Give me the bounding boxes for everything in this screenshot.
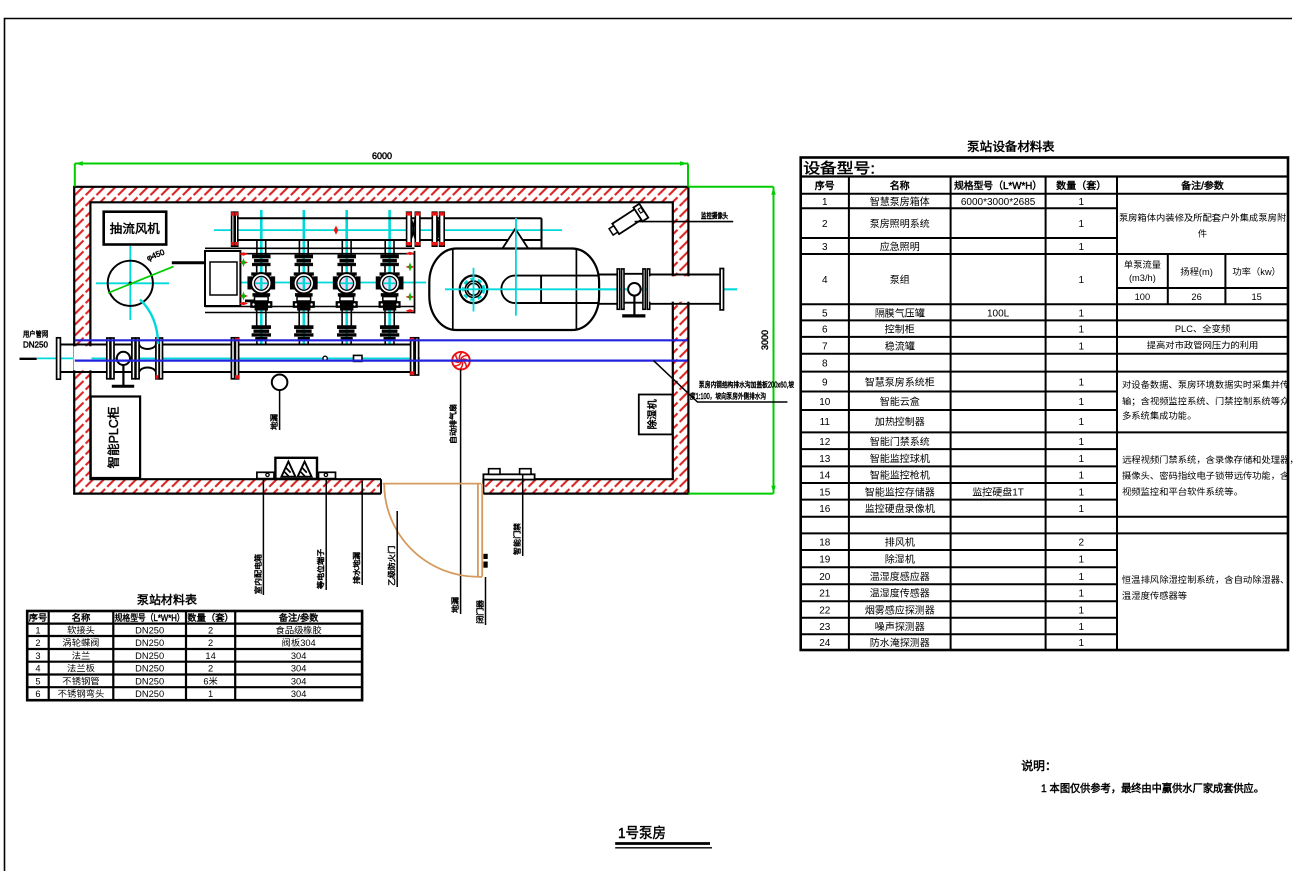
svg-text:名称: 名称 <box>72 613 91 623</box>
svg-text:5: 5 <box>35 676 40 686</box>
svg-text:6: 6 <box>35 689 40 699</box>
svg-text:19: 19 <box>819 555 831 566</box>
svg-text:监控硬盘录像机: 监控硬盘录像机 <box>865 503 935 515</box>
svg-text:1: 1 <box>1079 572 1085 583</box>
svg-text:智能监控球机: 智能监控球机 <box>870 453 930 465</box>
valve V1 stem <box>122 365 124 385</box>
tank centerline <box>445 288 737 290</box>
door lock <box>483 554 487 568</box>
svg-text:单泵流量: 单泵流量 <box>1124 259 1161 270</box>
discharge manifold pipe <box>238 218 542 248</box>
svg-text:备注/参数: 备注/参数 <box>279 613 319 623</box>
svg-text:智能门禁系统: 智能门禁系统 <box>870 436 931 448</box>
svg-text:16: 16 <box>819 504 831 515</box>
svg-text:9: 9 <box>822 378 828 389</box>
svg-text:2: 2 <box>35 638 40 648</box>
svg-text:1: 1 <box>1079 555 1085 566</box>
svg-text:2: 2 <box>1079 538 1085 549</box>
marker right red top <box>406 252 415 255</box>
svg-text:1: 1 <box>1079 471 1085 482</box>
svg-text:说明：: 说明： <box>1021 759 1057 773</box>
exhaust fan symbol <box>452 352 470 370</box>
svg-text:泵房箱体内装修及所配套户外集成泵房附: 泵房箱体内装修及所配套户外集成泵房附 <box>1119 212 1287 223</box>
svg-text:DN250: DN250 <box>135 664 164 674</box>
tank bearing inner circle <box>468 283 480 295</box>
skid header box <box>205 251 240 306</box>
fan duct leader green <box>108 266 174 293</box>
discharge left end flange a <box>231 212 234 246</box>
svg-text:泵站设备材料表: 泵站设备材料表 <box>967 139 1055 154</box>
svg-text:名称: 名称 <box>890 180 910 192</box>
door frame line <box>383 483 481 485</box>
tank inlet vertical overlay <box>515 218 517 316</box>
svg-text:监控摄像头: 监控摄像头 <box>701 212 728 221</box>
flange F5a <box>231 338 234 379</box>
svg-text:泵房照明系统: 泵房照明系统 <box>870 218 931 230</box>
svg-text:3: 3 <box>822 242 828 253</box>
room wall hatch right <box>673 202 689 479</box>
svg-text:13: 13 <box>819 454 831 465</box>
skid header inner panel <box>210 262 237 295</box>
dim tick top <box>688 186 773 188</box>
svg-text:稳流罐: 稳流罐 <box>885 340 915 352</box>
funnel to tank <box>502 229 528 249</box>
svg-text:序号: 序号 <box>29 612 48 623</box>
outlet end flange <box>720 269 723 310</box>
svg-text:10: 10 <box>819 397 831 408</box>
svg-text:2: 2 <box>822 219 828 230</box>
dim tick right <box>687 164 689 187</box>
svg-text:DN250: DN250 <box>135 625 164 635</box>
svg-text:1: 1 <box>1079 325 1085 336</box>
marker left red bottom <box>239 302 248 305</box>
svg-text:3000: 3000 <box>760 330 770 350</box>
tank inner capsule <box>501 276 599 303</box>
svg-text:24: 24 <box>819 638 831 649</box>
svg-text:22: 22 <box>819 605 831 616</box>
pump row centerline <box>207 282 426 284</box>
svg-text:DN250: DN250 <box>23 341 48 350</box>
svg-text:6000: 6000 <box>372 151 392 161</box>
svg-text:4: 4 <box>822 275 828 286</box>
svg-text:室内配电箱: 室内配电箱 <box>254 554 263 594</box>
svg-text:备注/参数: 备注/参数 <box>1181 180 1224 192</box>
outlet flange pair2 b <box>647 269 649 309</box>
svg-text:件: 件 <box>1198 228 1207 239</box>
skid header terminal <box>245 300 258 303</box>
discharge left end flange b <box>235 212 238 246</box>
callout 乙级防火门 <box>388 511 398 587</box>
svg-text:304: 304 <box>291 676 307 686</box>
dim tick left <box>74 164 76 187</box>
svg-text:1: 1 <box>1079 341 1085 352</box>
tank seam right <box>575 249 577 330</box>
tank centerline overlay <box>445 288 737 290</box>
exhaust fan blades <box>452 352 469 369</box>
dim tick bottom <box>688 493 773 495</box>
svg-text:智能监控存储器: 智能监控存储器 <box>865 486 936 498</box>
skid top rail <box>205 248 415 253</box>
flange F5b <box>235 338 239 379</box>
discharge flex2 flange a <box>432 212 437 246</box>
fan circle <box>108 261 153 306</box>
svg-text:地漏: 地漏 <box>270 414 279 430</box>
tank inlet centerline vertical <box>515 218 517 316</box>
door swing arc <box>384 484 478 577</box>
svg-text:提高对市政管网压力的利用: 提高对市政管网压力的利用 <box>1147 340 1259 351</box>
svg-text:规格型号（L*W*H）: 规格型号（L*W*H） <box>954 180 1042 192</box>
svg-text:6000*3000*2685: 6000*3000*2685 <box>961 197 1036 208</box>
material table grid <box>27 611 362 700</box>
skid right edge <box>414 251 416 314</box>
callout 智能门禁 <box>512 474 523 556</box>
gauge circle <box>272 375 288 391</box>
svg-text:1: 1 <box>1079 197 1085 208</box>
fan crosshair vertical <box>129 246 131 320</box>
tank bearing outer circle <box>460 276 488 304</box>
svg-text:智能监控枪机: 智能监控枪机 <box>870 470 930 482</box>
svg-text:温湿度传感器: 温湿度传感器 <box>870 588 931 600</box>
svg-text:温湿度感应器: 温湿度感应器 <box>870 571 931 583</box>
distribution box <box>275 458 317 479</box>
svg-text:1: 1 <box>1079 504 1085 515</box>
svg-text:2: 2 <box>208 625 213 635</box>
dim arrow left <box>75 161 83 165</box>
door leaf <box>478 484 482 577</box>
svg-text:不锈钢弯头: 不锈钢弯头 <box>58 688 105 699</box>
tank seam left <box>452 249 454 330</box>
pump unit 3 <box>333 241 360 345</box>
svg-text:1: 1 <box>1079 605 1085 616</box>
fan label box <box>104 212 167 245</box>
camera leader line <box>635 221 734 223</box>
warning triangle 1 <box>281 462 295 477</box>
equipment table remark cells <box>1117 212 1299 601</box>
tank bearing vertical overlay <box>473 268 475 312</box>
suction end flange <box>57 338 61 379</box>
svg-text:涡轮蝶阀: 涡轮蝶阀 <box>62 638 99 648</box>
svg-text:1: 1 <box>1079 417 1085 428</box>
svg-text:15: 15 <box>819 487 831 498</box>
fan hub dot <box>129 282 133 286</box>
svg-text:规格型号（L*W*H）: 规格型号（L*W*H） <box>115 613 185 623</box>
svg-text:对设备数据、泵房环境数据实时采集并传: 对设备数据、泵房环境数据实时采集并传 <box>1122 379 1289 390</box>
svg-text:乙级防火门: 乙级防火门 <box>388 546 397 586</box>
svg-text:1: 1 <box>1079 622 1085 633</box>
flexible joint suction <box>139 345 156 373</box>
door jamb right <box>482 479 484 493</box>
blue pipe upper <box>75 339 688 341</box>
svg-text:阀板304: 阀板304 <box>282 638 316 648</box>
svg-text:控制柜: 控制柜 <box>884 325 916 336</box>
marker right green1 <box>406 262 415 271</box>
svg-text:数量（套）: 数量（套） <box>1056 180 1106 192</box>
svg-text:设备型号:: 设备型号: <box>803 161 875 178</box>
svg-text:食品级橡胶: 食品级橡胶 <box>275 625 322 635</box>
door closer plate <box>483 474 534 479</box>
svg-text:视频监控和平台软件系统等。: 视频监控和平台软件系统等。 <box>1122 486 1243 497</box>
svg-text:304: 304 <box>291 689 307 699</box>
outlet flange pair1 b <box>622 269 624 309</box>
suction centerline <box>37 357 420 359</box>
svg-text:(m3/h): (m3/h) <box>1129 273 1156 283</box>
side box screw right <box>324 473 327 476</box>
svg-text:自动排气扇: 自动排气扇 <box>449 404 458 444</box>
marker left green2 <box>239 292 248 301</box>
flange F3a <box>132 338 135 379</box>
butterfly valve V1 circle <box>117 352 130 365</box>
discharge flex1 flange b <box>415 212 420 246</box>
svg-text:4: 4 <box>35 664 40 674</box>
svg-text:7: 7 <box>822 341 828 352</box>
outlet flange pair2 a <box>643 269 645 309</box>
svg-text:噪声探测器: 噪声探测器 <box>875 621 926 633</box>
flange F2b <box>111 338 114 379</box>
dim arrow right <box>680 161 688 165</box>
svg-text:1: 1 <box>1079 397 1085 408</box>
svg-text:抽流风机: 抽流风机 <box>110 222 161 236</box>
svg-text:智能云盒: 智能云盒 <box>880 396 920 408</box>
svg-text:度1:100，坡向泵房外侧排水沟: 度1:100，坡向泵房外侧排水沟 <box>690 391 766 401</box>
side box screw left <box>266 473 269 476</box>
dim line 6000 top <box>75 163 688 165</box>
flange F2a <box>107 338 110 379</box>
svg-text:等电位端子: 等电位端子 <box>316 548 326 589</box>
svg-text:1: 1 <box>1079 242 1085 253</box>
svg-text:26: 26 <box>1191 292 1201 302</box>
svg-text:泵房内钢结构排水沟加盖板200x60,坡: 泵房内钢结构排水沟加盖板200x60,坡 <box>699 381 794 390</box>
suction pipe segment 2 <box>163 345 232 373</box>
flange F4a <box>156 338 160 379</box>
door sensor box 2 <box>520 469 531 475</box>
svg-text:DN250: DN250 <box>135 689 164 699</box>
svg-text:摄像头、密码指纹电子锁带远传功能，含: 摄像头、密码指纹电子锁带远传功能，含 <box>1122 470 1290 481</box>
svg-text:1: 1 <box>1079 437 1085 448</box>
room wall outer outline <box>74 187 688 494</box>
svg-text:DN250: DN250 <box>135 651 164 661</box>
svg-text:1: 1 <box>1079 378 1085 389</box>
svg-text:应急照明: 应急照明 <box>880 241 920 253</box>
svg-text:远程视频门禁系统，含录像存储和处理器，: 远程视频门禁系统，含录像存储和处理器， <box>1122 454 1299 465</box>
tank bearing mid circle <box>465 281 481 297</box>
outlet valve stem <box>633 296 635 315</box>
manifold red diamond marker <box>334 226 338 235</box>
svg-text:数量（套）: 数量（套） <box>187 613 234 623</box>
room wall hatch left <box>74 202 90 479</box>
manifold end flange a <box>410 338 414 375</box>
svg-text:23: 23 <box>819 622 831 633</box>
outlet pipe through wall <box>649 275 720 304</box>
skid bottom rail <box>205 307 415 313</box>
svg-text:智能PLC柜: 智能PLC柜 <box>106 407 121 469</box>
tank bearing bolt ring <box>463 279 484 300</box>
inlet dash outside <box>20 358 37 360</box>
svg-text:防水淹探测器: 防水淹探测器 <box>870 637 931 649</box>
room wall hatch bottom-left <box>74 479 381 493</box>
svg-text:3: 3 <box>35 651 40 661</box>
pump unit 1 <box>248 241 275 345</box>
callout 室内配电箱 <box>254 479 264 595</box>
svg-text:法兰: 法兰 <box>72 651 91 661</box>
dim arrow top <box>771 187 775 195</box>
distribution side box left <box>257 472 274 478</box>
svg-text:100L: 100L <box>987 308 1010 319</box>
outlet valve base <box>622 314 645 317</box>
svg-text:恒温排风除湿控制系统，含自动除湿器、: 恒温排风除湿控制系统，含自动除湿器、 <box>1121 574 1289 585</box>
equipment table header <box>815 180 1224 192</box>
svg-text:1: 1 <box>35 625 40 635</box>
manifold drain circle <box>323 356 327 360</box>
equipment table grid <box>801 158 1288 651</box>
material table header <box>29 612 320 623</box>
pump 2 riser centerline <box>302 210 305 345</box>
svg-text:14: 14 <box>819 471 831 482</box>
svg-text:1: 1 <box>1079 275 1085 286</box>
blue pipe lower <box>75 360 688 362</box>
exhaust fan leader line <box>460 370 462 615</box>
svg-text:隔膜气压罐: 隔膜气压罐 <box>875 307 925 319</box>
drawing title underline thick <box>615 842 710 845</box>
svg-text:法兰板: 法兰板 <box>67 664 96 674</box>
svg-text:加热控制器: 加热控制器 <box>875 416 926 428</box>
dim line 3000 right <box>773 187 775 494</box>
svg-text:排风机: 排风机 <box>885 538 915 549</box>
outlet flange pair1 a <box>617 269 619 309</box>
svg-text:6米: 6米 <box>203 676 217 686</box>
tank bearing crosshair vertical <box>473 268 475 312</box>
svg-text:DN250: DN250 <box>135 676 164 686</box>
room wall hatch top <box>74 187 688 203</box>
svg-text:1: 1 <box>822 197 828 208</box>
svg-text:泵站材料表: 泵站材料表 <box>137 593 197 607</box>
equipment table body cells <box>819 196 1084 649</box>
suction pipe wall clearing <box>74 346 92 370</box>
svg-text:序号: 序号 <box>815 180 835 192</box>
svg-text:多系统集成功能。: 多系统集成功能。 <box>1122 410 1196 421</box>
svg-text:15: 15 <box>1252 292 1262 302</box>
svg-text:20: 20 <box>819 572 831 583</box>
discharge flex2 flange b <box>439 212 444 246</box>
svg-text:18: 18 <box>819 538 831 549</box>
room wall inner outline <box>90 202 672 479</box>
svg-text:1: 1 <box>208 689 213 699</box>
svg-text:温湿度传感器等: 温湿度传感器等 <box>1122 590 1188 601</box>
svg-text:1: 1 <box>1079 454 1085 465</box>
gauge leader line <box>279 390 281 430</box>
svg-text:1: 1 <box>1079 487 1085 498</box>
svg-text:功率（kw）: 功率（kw） <box>1232 267 1281 277</box>
door sensor box 1 <box>489 469 500 475</box>
svg-text:2: 2 <box>208 664 213 674</box>
marker left green1 <box>239 258 248 267</box>
pump unit 4 <box>376 241 403 345</box>
room wall hatch bottom-right <box>483 479 688 493</box>
svg-text:1: 1 <box>1079 638 1085 649</box>
dim arrow bottom <box>771 486 775 494</box>
outlet pipe tank stub <box>599 275 618 304</box>
suction pipe segment 1 <box>60 345 139 373</box>
pump 3 riser centerline <box>345 210 348 345</box>
fan duct line <box>172 261 205 264</box>
pump unit 2 <box>290 241 317 345</box>
door jamb left <box>380 479 382 493</box>
svg-text:排水地漏: 排水地漏 <box>353 552 362 584</box>
camera body <box>607 204 649 239</box>
fan crosshair horizontal <box>96 282 169 284</box>
svg-text:除湿机: 除湿机 <box>647 400 659 430</box>
svg-text:1: 1 <box>1079 589 1085 600</box>
svg-text:304: 304 <box>291 664 307 674</box>
PLC cabinet box <box>91 397 140 479</box>
svg-text:14: 14 <box>205 651 215 661</box>
svg-text:智能门禁: 智能门禁 <box>512 523 522 555</box>
discharge flex2 bellows <box>437 219 440 239</box>
callout 排水地漏 <box>353 481 363 585</box>
marker left red top <box>239 252 248 255</box>
svg-text:11: 11 <box>820 417 831 428</box>
svg-text:1: 1 <box>1079 308 1085 319</box>
discharge flex1 bellows <box>411 219 415 239</box>
fan outlet curve <box>140 300 158 345</box>
svg-text:5: 5 <box>822 308 828 319</box>
svg-text:DN250: DN250 <box>135 638 164 648</box>
svg-text:扬程(m): 扬程(m) <box>1179 267 1213 277</box>
svg-text:1号泵房: 1号泵房 <box>618 825 666 842</box>
flange F4b <box>159 338 162 379</box>
dehumidifier box <box>639 395 673 435</box>
svg-text:12: 12 <box>819 437 831 448</box>
svg-text:1: 1 <box>1079 219 1085 230</box>
tank body <box>429 249 599 331</box>
callout 等电位端子 <box>316 479 327 590</box>
pump 4 riser centerline <box>388 210 391 345</box>
drain note leader <box>654 361 788 402</box>
pump 1 riser centerline <box>260 210 263 345</box>
svg-text:1 本图仅供参考，最终由中赢供水厂家成套供应。: 1 本图仅供参考，最终由中赢供水厂家成套供应。 <box>1041 782 1264 795</box>
marker right red bottom <box>406 309 415 312</box>
marker right green2 <box>406 292 415 301</box>
svg-text:泵组: 泵组 <box>890 274 910 286</box>
material table body cells <box>35 624 322 699</box>
svg-text:地漏: 地漏 <box>451 597 460 613</box>
svg-text:21: 21 <box>819 589 831 600</box>
svg-text:不锈钢管: 不锈钢管 <box>62 676 99 686</box>
svg-text:输；含视频监控系统、门禁控制系统等众: 输；含视频监控系统、门禁控制系统等众 <box>1122 396 1289 407</box>
manifold sensor box <box>354 355 363 361</box>
suction manifold pipe <box>239 345 411 373</box>
svg-text:智慧泵房系统柜: 智慧泵房系统柜 <box>865 377 936 389</box>
drawing title underline thin <box>615 847 712 849</box>
valve V1 base <box>112 385 134 388</box>
svg-text:除湿机: 除湿机 <box>885 554 915 566</box>
svg-text:智慧泵房箱体: 智慧泵房箱体 <box>870 196 930 208</box>
svg-text:用户管网: 用户管网 <box>23 330 48 339</box>
flange F3b <box>136 338 139 379</box>
svg-text:软接头: 软接头 <box>66 624 95 635</box>
svg-text:6: 6 <box>822 325 828 336</box>
discharge manifold centerline <box>214 229 562 231</box>
discharge flex1 flange a <box>406 212 411 246</box>
svg-text:2: 2 <box>208 638 213 648</box>
manifold end flange b <box>415 338 418 375</box>
svg-text:8: 8 <box>822 359 828 370</box>
svg-text:烟雾感应探测器: 烟雾感应探测器 <box>865 604 936 616</box>
callout 闭门器 <box>476 577 486 625</box>
warning triangle 2 <box>298 462 312 477</box>
outlet valve segment <box>624 274 643 303</box>
outlet valve circle <box>628 283 641 296</box>
svg-text:PLC、全变频: PLC、全变频 <box>1175 323 1231 334</box>
